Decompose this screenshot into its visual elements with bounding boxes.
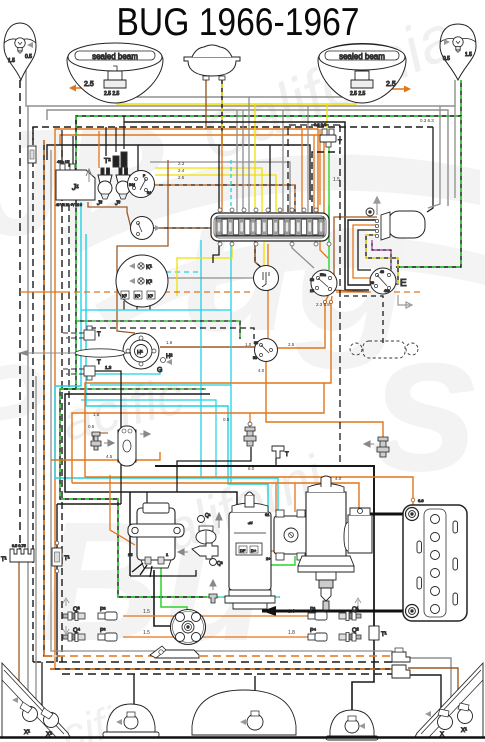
svg-text:49: 49 [380, 270, 384, 274]
wire orange regulator drops [294, 483, 296, 512]
wire black bus to J1 [105, 127, 107, 156]
wire brown sender elbow [93, 432, 108, 434]
left tail light [2, 663, 70, 738]
svg-text:P⁴: P⁴ [310, 627, 317, 634]
rear connector plugs [392, 648, 410, 678]
wire black wiper pin1 to E [348, 220, 377, 285]
svg-text:X¹: X¹ [461, 728, 467, 734]
wire orange to headlight switch [267, 244, 269, 338]
wire brown horn down [205, 76, 207, 129]
voltage regulator [265, 510, 312, 561]
wire fusebox feeds orange2 [313, 135, 315, 212]
wire fusebox feeds black [218, 145, 220, 212]
svg-text:49 VR B1 +V B2 6: 49 VR B1 +V B2 6 [56, 203, 82, 207]
svg-text:X¹: X¹ [24, 730, 30, 736]
wire fusebox feeds gray5 [282, 110, 284, 212]
svg-text:T¹: T¹ [64, 556, 70, 562]
left T connector b [62, 360, 121, 504]
wire orange ignition down loop [85, 296, 332, 477]
wire cyan speedo legs [200, 240, 202, 478]
svg-text:H¹: H¹ [137, 350, 143, 356]
wire gray right edge long [454, 106, 456, 198]
wire cyan K2 horizontal [157, 271, 201, 273]
wire fusebox feed cyan dash [230, 160, 232, 212]
wire fusebox feeds yellow [254, 104, 256, 212]
license light small [103, 704, 159, 737]
spark plug Q1 [339, 598, 361, 621]
svg-text:50a: 50a [320, 273, 326, 277]
wire fusebox feeds black2 [269, 145, 271, 212]
wire orange generator to regulator [268, 550, 276, 552]
connector T2 [104, 152, 127, 167]
wire fusebox feeds gray3 [236, 110, 238, 212]
arrow left headlight wire [69, 85, 76, 92]
wire yellow fusebox to fuel gauge [263, 242, 265, 266]
wire black sender to coil [177, 447, 251, 492]
svg-text:1.5: 1.5 [143, 609, 150, 615]
idle cutoff valve [178, 543, 223, 567]
spark plug Q4 [63, 627, 85, 642]
wire green-black dash bus y116 [76, 80, 461, 130]
wire violet-black dash wiper to E [372, 240, 391, 272]
wire fusebox feeds orange3 [221, 131, 223, 212]
ignition coil [128, 503, 184, 577]
fuses 1-10 [216, 219, 324, 236]
wire black dash mid y328 [90, 328, 254, 339]
wire brown vertical x168 to horn ring [117, 160, 168, 333]
svg-text:sealed beam: sealed beam [92, 52, 138, 61]
engine lid dome big [192, 690, 296, 735]
wire orange dash switch to fusebox [155, 185, 295, 212]
wire orange bus y129 [55, 129, 318, 213]
left T connector a [62, 326, 101, 340]
svg-text:☙: ☙ [247, 521, 253, 527]
svg-text:P²: P² [100, 607, 106, 613]
wire fusebox feeds gray2 [248, 97, 250, 212]
svg-text:1.5: 1.5 [465, 52, 472, 58]
wire brown horn ring to light switch [160, 346, 255, 348]
wire black dash frame box [312, 152, 340, 213]
wire yellow under fusebox [177, 241, 232, 296]
svg-text:1.3: 1.3 [105, 365, 112, 370]
wire gray bottom bus y651 [51, 610, 392, 656]
wire orange row y413 [72, 383, 324, 483]
wire orange dash bottom bus [44, 655, 392, 657]
fusebox bus bars [216, 217, 324, 219]
wire left signal black dash down [19, 80, 21, 549]
wire black J1 risers [61, 130, 63, 164]
wire brown rear right [408, 668, 458, 704]
svg-text:K²: K² [146, 280, 152, 286]
svg-text:T: T [97, 332, 101, 338]
wire orange bus y135 [60, 135, 324, 213]
svg-text:0.5: 0.5 [88, 424, 95, 429]
fuse T1 [369, 626, 387, 640]
svg-text:T¹: T¹ [381, 632, 387, 638]
connector T mid [272, 446, 289, 458]
wire orange light switch to ignition [277, 294, 329, 348]
spark plug Q3 [63, 598, 85, 634]
wire left black dash x69 [68, 160, 70, 405]
wire gray speedo to fuel gauge [168, 277, 254, 279]
wire orange wiper pin2 to E [353, 225, 377, 278]
wire brown J1 to switches [88, 202, 131, 228]
svg-text:0.5 0.75: 0.5 0.75 [12, 544, 26, 548]
wiper motor cylinder [366, 197, 425, 240]
wire gray bus signals y106 [26, 53, 455, 106]
svg-text:P¹: P¹ [310, 607, 316, 613]
svg-text:54d: 54d [129, 183, 135, 187]
speedometer K lamps [116, 255, 168, 307]
wire gray left tail [35, 376, 37, 710]
license light right [326, 710, 378, 740]
generator [225, 492, 275, 609]
fuse box [211, 213, 329, 241]
svg-text:2.5: 2.5 [178, 175, 185, 180]
ground baseline [0, 736, 485, 739]
wire orange fusebox right bend [319, 129, 321, 205]
lamp socket J3 [114, 168, 130, 207]
svg-text:2.5 2.5: 2.5 2.5 [104, 91, 120, 97]
svg-text:58: 58 [253, 356, 257, 360]
sender plug mid [244, 422, 256, 446]
wire orange spark row right1 [200, 615, 308, 617]
wire cyan A [55, 202, 278, 514]
svg-text:1.5: 1.5 [143, 630, 150, 636]
svg-text:BUG 1966-1967: BUG 1966-1967 [117, 1, 360, 44]
wire yellow switch to fuses 2.3 [155, 168, 262, 212]
svg-text:0.5: 0.5 [25, 54, 32, 60]
svg-text:J¹: J¹ [71, 183, 79, 192]
fuse terminals top [218, 208, 318, 212]
svg-text:49a 15: 49a 15 [57, 159, 70, 164]
svg-text:Q²: Q² [352, 628, 359, 634]
svg-text:Q³: Q³ [73, 607, 80, 613]
svg-text:s: s [370, 290, 481, 513]
wire yellow-black dash wiper to E [366, 235, 398, 284]
wire left black dash x33 [32, 127, 34, 662]
svg-text:30: 30 [310, 278, 314, 282]
wire orange-black dash bottom bus [50, 668, 392, 670]
wire black dash bus y127 [33, 127, 433, 140]
svg-text:K⁵: K⁵ [148, 294, 153, 299]
wire cyan row y310 [81, 309, 231, 311]
wire fusebox feeds gray [242, 110, 244, 212]
svg-text:2.4: 2.4 [178, 168, 185, 173]
wiper switch [131, 217, 161, 240]
wire black bus y145 [47, 145, 310, 200]
wire brown wiper to E [334, 217, 377, 292]
wire orange bus to J2 socket [98, 131, 100, 168]
wire green dash engine y597 [207, 591, 280, 597]
svg-text:1.5: 1.5 [333, 177, 340, 183]
svg-text:54: 54 [147, 191, 151, 195]
left headlight sealed beam [67, 43, 163, 103]
wire black rear right [408, 675, 441, 709]
svg-text:1.5: 1.5 [93, 412, 100, 417]
cable connector P4 [308, 627, 327, 641]
headlight switch [253, 339, 278, 362]
wire black coil down to distributor [154, 570, 170, 626]
svg-text:Q¹: Q¹ [352, 607, 359, 613]
svg-text:K³: K³ [122, 294, 127, 299]
battery [403, 498, 467, 621]
oil sender engine [209, 580, 217, 603]
svg-text:Q⁴: Q⁴ [73, 627, 81, 634]
svg-text:D+: D+ [251, 548, 257, 553]
svg-text:T: T [97, 360, 101, 366]
wire left gray long down [27, 106, 29, 705]
svg-text:61: 61 [265, 512, 270, 517]
svg-text:4.0: 4.0 [335, 476, 342, 481]
fuel gauge [254, 266, 279, 291]
starter motor [298, 476, 354, 610]
svg-text:2.5: 2.5 [288, 342, 295, 347]
brake light switch capsule [118, 426, 150, 466]
wire black battery down T1 [373, 514, 375, 626]
svg-text:0.5: 0.5 [223, 417, 230, 422]
wire black T2 risers [115, 127, 117, 152]
wire fusebox feeds gray4 [307, 106, 309, 212]
svg-text:DF: DF [240, 548, 246, 553]
wire black vert x433 topright [427, 127, 433, 212]
wire black dash bottom bus1 [33, 661, 392, 663]
lamp socket J2 [96, 168, 112, 207]
wire orange long x51 to capsule [51, 452, 160, 460]
horn [184, 45, 240, 80]
wire green-black dash mid y321 [76, 321, 240, 339]
arrow right headlight wire [404, 86, 411, 93]
wire green regulator to generator [252, 548, 295, 565]
wire orange ignition to E [336, 291, 371, 293]
fuse T1 left [52, 541, 70, 573]
svg-text:E: E [400, 278, 407, 289]
wire orange left headlight [76, 87, 104, 89]
wire black fusebox stub left [213, 241, 219, 263]
svg-text:T¹: T¹ [1, 557, 7, 563]
wire green-black dash right signal down [396, 116, 461, 267]
wire yellow bus headlights y104 [117, 90, 356, 104]
wire orange spark row left1 [123, 615, 176, 617]
svg-text:6.0: 6.0 [418, 498, 424, 503]
relay J1 [56, 159, 95, 207]
wire yellow switch to fuses 2.4 [155, 175, 276, 212]
wire black dash x338 [339, 125, 341, 466]
fuse terminals bottom [218, 242, 331, 246]
wire black left tail [42, 662, 46, 716]
fuse 8A left edge [28, 146, 36, 163]
right tail light [415, 663, 483, 738]
svg-text:K⁴: K⁴ [135, 294, 140, 299]
sender plug left [91, 432, 114, 450]
svg-text:T²: T² [104, 158, 111, 165]
wire orange solenoid y483 [72, 483, 359, 513]
wire left black dash x62 [61, 150, 63, 662]
wire orange light switch to oil switch [266, 361, 383, 437]
svg-text:2.5: 2.5 [84, 81, 94, 88]
wire black dash bottom bus2 [62, 673, 392, 675]
wire cyan row y400 [81, 400, 216, 478]
oil pressure switch [364, 437, 389, 457]
svg-text:2.5 2.5: 2.5 2.5 [350, 91, 366, 97]
svg-text:1.6: 1.6 [288, 609, 295, 615]
svg-text:30: 30 [254, 341, 258, 345]
wire black T1 left branch [57, 503, 121, 505]
interior dome light dashed [350, 341, 418, 358]
wire black switch to bus [137, 145, 139, 172]
wire cyan wiper y374 [90, 369, 160, 374]
wire green fusebox to ignition [328, 142, 330, 270]
wire black mid y394 coil box loop [65, 394, 237, 520]
svg-text:K¹: K¹ [146, 265, 152, 271]
wire brown dash lightswitch [152, 228, 262, 268]
wire black battery cable solenoid [366, 513, 406, 516]
wire black frame coil inner [146, 492, 148, 503]
wire left green-black dash x76 [60, 116, 207, 597]
wire green coil to distributor [161, 567, 187, 610]
svg-text:4.5: 4.5 [106, 454, 113, 459]
svg-text:T: T [338, 140, 342, 146]
wire left orange-black dash x44 [44, 140, 60, 656]
arrow battery ground [262, 606, 276, 616]
wire green-black dash branch y389 [60, 388, 206, 390]
svg-text:G: G [157, 367, 162, 374]
svg-text:15: 15 [310, 289, 314, 293]
svg-text:1.0: 1.0 [245, 342, 252, 347]
wire black right vertical to E [124, 122, 369, 290]
wire gray rear right [408, 658, 451, 700]
wire black license1 [133, 674, 135, 704]
wire black frame coil left [129, 492, 131, 576]
horn ring H [123, 333, 172, 374]
choke valve [196, 513, 222, 544]
svg-text:2.5: 2.5 [386, 81, 396, 88]
wire orange ignition row [20, 291, 64, 293]
wire black speedo stubs [124, 301, 150, 310]
starter solenoid [344, 508, 372, 553]
left front turn signal [4, 23, 36, 80]
wire yellow riser to T [326, 104, 328, 133]
wire yellow-black dash horn down [221, 76, 223, 145]
wire cyan wiper y385 [90, 384, 231, 386]
wire green fusebox right [328, 205, 330, 241]
emergency flasher switch E [370, 268, 412, 308]
svg-text:0.5: 0.5 [443, 56, 450, 62]
turn signal switch [128, 171, 155, 198]
label yellow wires [93, 161, 342, 481]
wire gray switch to fuses [150, 162, 290, 212]
svg-text:Q²: Q² [217, 561, 223, 567]
svg-text:J³: J³ [114, 201, 121, 207]
wire gray bus y110 [47, 110, 448, 206]
svg-text:T: T [285, 452, 289, 458]
right headlight sealed beam [318, 44, 406, 104]
svg-text:49a: 49a [384, 289, 390, 293]
svg-text:sealed beam: sealed beam [339, 52, 385, 61]
wire gray vert x440 topright [428, 106, 440, 208]
connector T1 left edge [1, 544, 34, 563]
svg-text:1.5: 1.5 [8, 58, 15, 64]
svg-text:0.3 6.3: 0.3 6.3 [314, 122, 327, 127]
svg-text:1.8: 1.8 [288, 630, 295, 636]
svg-text:2.3 5.8: 2.3 5.8 [316, 302, 330, 307]
distributor [150, 610, 206, 659]
cable connector torpedo [18, 349, 131, 357]
wire gray bus headlights y97 [128, 84, 348, 97]
svg-text:6.0: 6.0 [248, 466, 255, 471]
wire orange ignition coil 15 [110, 475, 135, 545]
wire black coil to battery y466 [155, 466, 374, 514]
svg-text:1.6: 1.6 [166, 340, 173, 345]
ignition starter switch [310, 270, 337, 296]
svg-text:30: 30 [370, 281, 374, 285]
wire black license2 [254, 676, 256, 714]
cable connector P1 [308, 607, 327, 620]
wire fusebox feeds orange [301, 129, 303, 212]
svg-text:H²: H² [166, 354, 172, 360]
svg-text:15: 15 [128, 552, 133, 557]
wire orange fusebox stub right [320, 241, 328, 258]
wire left gray x51 [50, 150, 52, 610]
wire gray fusebox to ignition [292, 241, 314, 268]
svg-text:P³: P³ [100, 628, 106, 634]
wire orange spark row right2 [200, 636, 308, 638]
wire orange right headlight [372, 88, 404, 90]
svg-text:4.0: 4.0 [258, 368, 265, 373]
wire orange battery top y477 [85, 477, 413, 505]
cable connector P2 [98, 607, 117, 620]
watermark swoosh arc top [60, 154, 480, 255]
svg-text:2.3: 2.3 [178, 161, 185, 166]
wire cyan B [86, 234, 268, 512]
wire orange spark row left2 [123, 636, 176, 638]
wire black dash dome light [344, 296, 383, 344]
svg-text:Q¹: Q¹ [205, 513, 211, 519]
connector T top right [314, 122, 342, 147]
wire black battery ground bottom [262, 610, 406, 613]
cable connector P3 [98, 628, 117, 641]
right front turn signal [440, 24, 476, 80]
svg-text:0.3 6.3: 0.3 6.3 [420, 118, 434, 123]
wire brown left tail [19, 562, 24, 707]
wire black wiper pin3 to E [358, 230, 377, 270]
svg-text:J²: J² [96, 201, 103, 207]
spark plug Q2 [339, 628, 361, 642]
wire left orange x55 [54, 140, 56, 669]
svg-text:2+: 2+ [266, 556, 271, 561]
